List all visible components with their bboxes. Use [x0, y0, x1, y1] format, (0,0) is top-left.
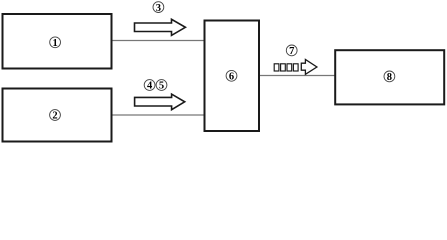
block arrow 3 [135, 19, 186, 35]
label 5 [156, 80, 167, 92]
striped arrow 7 head [301, 60, 317, 75]
box 6 [205, 21, 260, 132]
svg-text:8: 8 [387, 72, 392, 83]
wire box1 to box6 [112, 40, 204, 42]
box 8 [335, 50, 444, 104]
svg-text:7: 7 [289, 46, 294, 57]
striped arrow 7 square 2 [281, 64, 286, 71]
svg-text:2: 2 [52, 111, 57, 122]
label 8 [384, 71, 395, 83]
label 3 [153, 2, 164, 14]
svg-text:5: 5 [159, 81, 164, 92]
label 1 [50, 37, 61, 49]
svg-text:6: 6 [229, 72, 234, 83]
svg-text:3: 3 [156, 3, 161, 14]
label 2 [50, 110, 61, 122]
striped arrow 7 square 1 [274, 64, 279, 71]
wire box6 to box8 [259, 75, 335, 77]
svg-text:4: 4 [147, 81, 153, 92]
box 1 [3, 14, 112, 69]
label 4 [144, 80, 155, 92]
label 7 [286, 45, 297, 57]
svg-text:1: 1 [52, 38, 57, 49]
box 2 [3, 89, 112, 142]
label 6 [226, 70, 237, 82]
striped arrow 7 square 3 [287, 64, 292, 71]
wire box2 to box6 [112, 114, 204, 116]
block arrow 4-5 [135, 94, 185, 110]
striped arrow 7 square 4 [293, 64, 298, 71]
